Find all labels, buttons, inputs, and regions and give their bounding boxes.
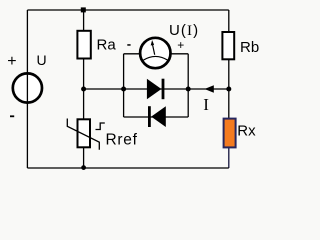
label - of source	[10, 115, 14, 117]
svg-text:U: U	[37, 52, 47, 68]
node junction left diode rail	[121, 87, 126, 92]
resistor Rx	[224, 119, 236, 148]
meter needle	[153, 45, 155, 55]
svg-text:+: +	[7, 53, 16, 70]
wire top horizontal	[27, 9, 228, 11]
label - of meter	[127, 44, 130, 46]
svg-text:Ra: Ra	[97, 37, 117, 54]
svg-text:I: I	[203, 95, 209, 114]
wire bottom horizontal	[27, 167, 228, 169]
node junction Ra/Rref/mid wire	[81, 87, 86, 92]
wire Rb bottom to Rx top	[228, 59, 230, 118]
wire left diode rail vertical	[123, 54, 125, 117]
current arrow I	[205, 85, 214, 93]
meter scale arc	[143, 56, 168, 60]
Rref nonlinear diagonal	[67, 119, 99, 150]
wire meter left lead	[124, 53, 140, 55]
resistor Ra	[77, 31, 90, 59]
node junction top wire / Ra branch	[81, 7, 86, 12]
wire meter right lead	[171, 53, 188, 55]
svg-text:Rref: Rref	[106, 132, 138, 149]
wire mid horizontal diode row	[84, 88, 229, 90]
wire Ra branch from top	[83, 10, 85, 31]
wire left vertical through source	[26, 72, 28, 104]
node junction right main wire	[226, 87, 231, 92]
wire Rref bottom to bottom rail	[83, 147, 85, 168]
wire Rx bottom to bottom rail	[228, 147, 230, 168]
diode D2 bottom (anode right)	[148, 106, 151, 127]
svg-text:+: +	[177, 38, 184, 52]
wire Ra bottom to Rref top	[83, 60, 85, 120]
node junction right diode rail	[186, 87, 191, 92]
Rref step mark	[96, 123, 105, 130]
resistor Rb	[222, 32, 234, 59]
svg-text:Rx: Rx	[237, 123, 256, 140]
resistor Rref	[78, 119, 91, 147]
svg-text:U(I): U(I)	[169, 22, 199, 39]
meter U(I)	[140, 38, 170, 68]
voltage source U	[13, 73, 42, 102]
node junction bottom wire / Rref branch	[81, 165, 86, 170]
wire left vertical	[26, 10, 28, 168]
wire right diode rail vertical	[187, 54, 189, 117]
diode D1 top (anode left)	[147, 79, 162, 99]
svg-text:Rb: Rb	[240, 39, 259, 56]
wire right vertical Rb branch	[228, 10, 230, 32]
wire bottom diode row	[124, 116, 189, 118]
